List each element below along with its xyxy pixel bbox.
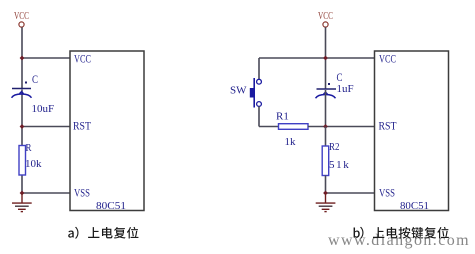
- ground (right): [316, 193, 336, 212]
- IC U2 80C51 box (right): [375, 51, 449, 211]
- wire switch bottom drop to RST rail: [258, 107, 260, 127]
- op IC U1 80C51 box (left): [70, 51, 144, 211]
- resistor R1 (1k): [279, 124, 309, 130]
- svg-text:RST: RST: [73, 121, 91, 133]
- wire resistor R2 bottom to node F: [325, 176, 327, 194]
- wire capacitor C bottom to node E: [325, 90, 327, 127]
- svg-text:VCC: VCC: [318, 11, 333, 22]
- wire node D to capacitor C top: [325, 58, 327, 89]
- svg-text:1k: 1k: [285, 136, 297, 148]
- ground (left): [12, 193, 32, 212]
- wire VCC circle to node D: [325, 27, 327, 58]
- capacitor C (10uF): [12, 82, 32, 98]
- wire top rail: switch SW top to 80C51 VCC pin: [259, 57, 375, 59]
- svg-text:VCC: VCC: [74, 54, 91, 66]
- caption b) power-on key reset: [354, 227, 449, 239]
- wire capacitor C bottom to node B: [21, 90, 23, 127]
- svg-text:RST: RST: [379, 121, 397, 133]
- svg-text:R: R: [26, 142, 33, 154]
- svg-text:VCC: VCC: [14, 11, 29, 22]
- wire VCC circle to node A: [21, 27, 23, 58]
- node E junction dot: [323, 124, 328, 129]
- wire node A to 80C51 VCC pin: [22, 57, 70, 59]
- wire resistor R1 right to node E and 80C51 RST pin: [308, 126, 375, 128]
- resistor R (10k): [19, 146, 26, 176]
- wire switch top drop: [258, 58, 260, 79]
- node D junction dot: [323, 56, 328, 61]
- wire node B to resistor R top: [21, 127, 23, 147]
- capacitor C (1uF, right): [316, 83, 337, 98]
- wire resistor R bottom to node C (VSS net): [21, 175, 23, 193]
- wire node F to 80C51 VSS pin: [326, 192, 375, 194]
- node A junction dot: [20, 56, 25, 61]
- svg-text:R2: R2: [329, 141, 340, 153]
- power symbol VCC (left): [14, 11, 29, 27]
- svg-text:10k: 10k: [25, 158, 42, 170]
- power symbol VCC (right): [318, 11, 333, 27]
- svg-text:VSS: VSS: [74, 188, 90, 200]
- resistor R2 (51k): [322, 146, 329, 176]
- svg-text:C: C: [32, 74, 38, 86]
- caption a) power-on reset: [68, 227, 138, 239]
- node F junction dot: [323, 191, 328, 196]
- svg-text:80C51: 80C51: [400, 200, 429, 212]
- svg-text:VSS: VSS: [379, 188, 395, 200]
- svg-text:R1: R1: [276, 111, 289, 123]
- svg-text:51k: 51k: [329, 159, 350, 171]
- svg-text:VCC: VCC: [379, 54, 396, 66]
- wire node C to 80C51 VSS pin: [22, 192, 70, 194]
- node B junction dot: [20, 124, 25, 129]
- wire switch bottom to resistor R1 left: [259, 126, 279, 128]
- wire node B to 80C51 RST pin: [22, 126, 70, 128]
- svg-text:SW: SW: [230, 85, 247, 97]
- svg-text:10uF: 10uF: [32, 103, 55, 115]
- svg-text:1uF: 1uF: [337, 83, 354, 95]
- wire node A to capacitor C top: [21, 58, 23, 89]
- node C junction dot: [20, 191, 25, 196]
- svg-text:80C51: 80C51: [96, 200, 126, 212]
- switch SW (push button): [250, 78, 262, 108]
- wire node E to resistor R2 top: [325, 127, 327, 147]
